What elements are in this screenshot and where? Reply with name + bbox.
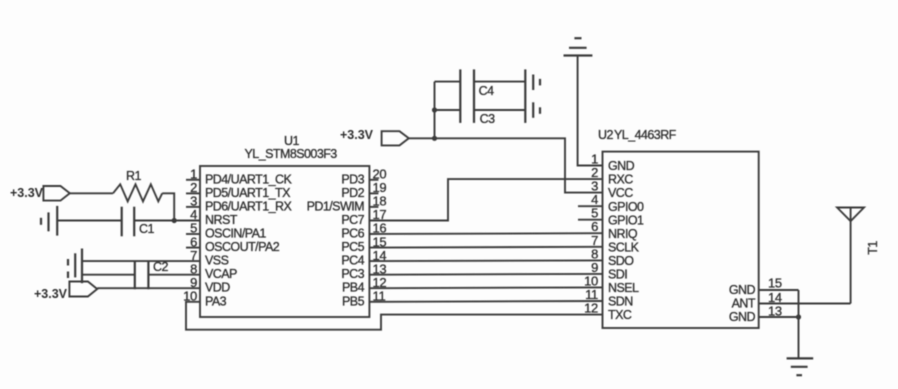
U1 right stubs pins 20,19,18 — [369, 180, 378, 207]
svg-text:PD5/UART1_TX: PD5/UART1_TX — [205, 186, 291, 200]
wire VSS rail — [82, 260, 200, 262]
svg-text:U1: U1 — [284, 134, 299, 148]
wire GND pin15 stub — [759, 289, 799, 291]
wire PC3 to SDI — [369, 273, 602, 276]
svg-text:ANT: ANT — [732, 297, 756, 311]
svg-text:GND: GND — [729, 310, 756, 324]
U1 left pin labels — [205, 172, 292, 308]
svg-text:OSCIN/PA1: OSCIN/PA1 — [205, 227, 266, 241]
svg-text:T1: T1 — [866, 241, 880, 255]
U2 left pin numbers — [584, 152, 598, 316]
svg-text:NRST: NRST — [205, 213, 238, 227]
wire C4 row leads — [435, 81, 526, 83]
svg-text:VCC: VCC — [608, 186, 633, 200]
svg-text:YL_4463RF: YL_4463RF — [614, 128, 677, 142]
svg-text:C1: C1 — [139, 222, 154, 236]
wire GND bus down to ground — [796, 290, 801, 358]
svg-text:GND: GND — [729, 283, 756, 297]
ground (top, inverted) — [564, 38, 593, 55]
wire VCAP rail (right part) — [148, 274, 200, 276]
svg-text:PC5: PC5 — [341, 240, 364, 254]
wire PA3 to TXC — [186, 302, 603, 330]
svg-text:PD6/UART1_RX: PD6/UART1_RX — [205, 199, 292, 213]
svg-text:C4: C4 — [479, 84, 494, 98]
svg-text:VSS: VSS — [205, 254, 229, 268]
svg-text:PA3: PA3 — [205, 294, 227, 308]
capacitor C2 — [135, 260, 169, 289]
svg-text:YL_STM8S003F3: YL_STM8S003F3 — [245, 147, 338, 161]
svg-text:RXC: RXC — [608, 173, 633, 187]
wire VCAP rail (left part) — [82, 274, 135, 276]
svg-text:NSEL: NSEL — [608, 281, 639, 295]
svg-text:15: 15 — [768, 276, 782, 291]
power flag +3.3V (middle) — [340, 128, 409, 145]
capacitor C1 — [122, 207, 155, 237]
wire C1 to NRST pin 4, junction at R1 — [134, 218, 200, 223]
capacitor C3 label — [480, 112, 495, 126]
svg-text:GPIO0: GPIO0 — [608, 200, 644, 214]
U1 left stubs pins 1,2,3,5,6 — [186, 180, 200, 248]
svg-text:PC7: PC7 — [341, 213, 364, 227]
wire PC5 to SCLK — [369, 246, 602, 249]
wire +3.3V flag to R1 — [70, 192, 113, 194]
wire C3 row leads — [435, 109, 526, 111]
svg-text:PD1/SWIM: PD1/SWIM — [307, 199, 365, 213]
wire PC6 to NRIQ — [369, 232, 602, 235]
svg-text:VCAP: VCAP — [205, 267, 237, 281]
wire PB5 to SDN — [369, 300, 602, 303]
antenna T1 — [837, 208, 880, 304]
U1 right pin labels — [307, 172, 365, 308]
svg-text:C2: C2 — [153, 260, 168, 274]
svg-text:+3.3V: +3.3V — [34, 287, 68, 301]
svg-text:SDO: SDO — [608, 254, 634, 268]
wire C3/C4 left bus — [432, 82, 437, 139]
svg-text:C3: C3 — [480, 112, 495, 126]
capacitor C4 — [460, 69, 494, 123]
wire VDD rail — [97, 287, 200, 289]
ground (sideways, C1) — [41, 206, 57, 236]
ground (bottom right) — [787, 358, 814, 375]
U1 left pin numbers — [183, 167, 197, 304]
svg-text:PC6: PC6 — [341, 227, 364, 241]
module U2 YL_4463RF — [598, 128, 759, 328]
svg-text:12: 12 — [584, 301, 598, 316]
wire R1 to NRST node — [162, 193, 174, 220]
wire GND pin13 stub — [759, 316, 799, 318]
svg-text:R1: R1 — [126, 169, 141, 183]
svg-text:+3.3V: +3.3V — [340, 128, 374, 142]
U2 left pin labels — [608, 159, 644, 322]
power flag +3.3V (lower left) — [34, 282, 97, 302]
svg-text:SDI: SDI — [608, 268, 627, 282]
svg-text:PD4/UART1_CK: PD4/UART1_CK — [205, 172, 292, 186]
svg-text:GPIO1: GPIO1 — [608, 213, 644, 227]
svg-text:PD2: PD2 — [341, 186, 364, 200]
U1 right pin numbers — [373, 167, 387, 304]
U2 right pin numbers 15,14,13 — [768, 276, 782, 319]
U2 left stubs pins 4,5 — [578, 206, 603, 220]
svg-text:PB4: PB4 — [342, 281, 365, 295]
wire PC4 to SDO — [369, 259, 602, 262]
svg-text:PC3: PC3 — [341, 267, 364, 281]
svg-text:OSCOUT/PA2: OSCOUT/PA2 — [205, 240, 280, 254]
wire PC7 to RXC — [369, 179, 602, 220]
ground (sideways, C4/C3) — [525, 69, 540, 123]
resistor R1 — [113, 169, 162, 201]
svg-text:PD3: PD3 — [341, 172, 364, 186]
wire ANT pin14 to antenna — [759, 303, 851, 305]
svg-text:PB5: PB5 — [342, 294, 365, 308]
wire ground to GND pin 1 — [578, 56, 603, 166]
wire ground to C1 — [57, 220, 122, 222]
wire PB4 to NSEL — [369, 286, 602, 289]
IC U1 YL_STM8S003F3 — [200, 134, 369, 317]
ground (sideways, C2/VSS) — [68, 249, 82, 284]
svg-text:NRIQ: NRIQ — [608, 227, 638, 241]
svg-text:U2: U2 — [598, 128, 613, 142]
svg-text:+3.3V: +3.3V — [10, 186, 44, 200]
node junction C3/C4 bus on +3.3V rail — [432, 136, 437, 141]
svg-text:SDN: SDN — [608, 295, 633, 309]
svg-text:VDD: VDD — [205, 281, 230, 295]
power flag +3.3V (top left) — [10, 186, 70, 201]
svg-text:PC4: PC4 — [341, 254, 364, 268]
wire +3.3V rail to VCC — [409, 138, 603, 192]
svg-text:SCLK: SCLK — [608, 240, 640, 254]
U2 right pin labels GND/ANT/GND — [729, 283, 756, 324]
svg-text:TXC: TXC — [608, 308, 632, 322]
svg-text:GND: GND — [608, 159, 635, 173]
